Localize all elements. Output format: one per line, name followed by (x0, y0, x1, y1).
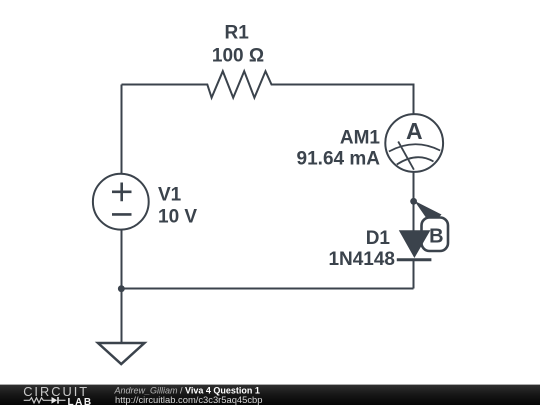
svg-text:A: A (406, 118, 423, 144)
wire right vertical ammeter to diode (413, 172, 415, 231)
logo resistor zigzag (24, 398, 52, 403)
probe B box (422, 218, 449, 252)
svg-text:V1: V1 (158, 185, 182, 206)
diode D1 cathode bar (397, 258, 432, 261)
ground (98, 343, 144, 364)
svg-text:R1: R1 (225, 22, 250, 43)
wire left vertical lower to ground (121, 230, 123, 342)
svg-text:LAB: LAB (68, 397, 93, 405)
ground junction node dot (118, 285, 125, 292)
ammeter scale arc outer (389, 144, 440, 151)
svg-text:100 Ω: 100 Ω (212, 45, 264, 66)
voltage source V1 circle (93, 174, 149, 230)
V1 minus sign (112, 213, 132, 216)
svg-text:91.64 mA: 91.64 mA (297, 148, 381, 169)
V1 plus sign (112, 183, 132, 202)
svg-text:10 V: 10 V (158, 206, 197, 227)
svg-text:AM1: AM1 (340, 128, 381, 149)
ammeter scale arc inner (397, 157, 434, 164)
wire top with resistor R1 zigzag (122, 71, 414, 114)
logo diode symbol (52, 397, 58, 404)
svg-text:http://circuitlab.com/c3c3r5aq: http://circuitlab.com/c3c3r5aq45cbp (115, 394, 262, 405)
wire left vertical upper (121, 85, 123, 175)
wire right vertical diode to bottom (413, 260, 415, 289)
node B junction dot (410, 198, 417, 205)
ammeter needle (398, 142, 414, 170)
svg-text:1N4148: 1N4148 (328, 249, 395, 270)
probe B pointer wedge (414, 201, 441, 226)
wire bottom (122, 288, 414, 290)
svg-text:D1: D1 (366, 228, 391, 249)
diode D1 triangle (399, 230, 431, 258)
ammeter AM1 circle (385, 114, 443, 172)
footer bar (0, 385, 540, 405)
svg-text:B: B (429, 225, 443, 247)
